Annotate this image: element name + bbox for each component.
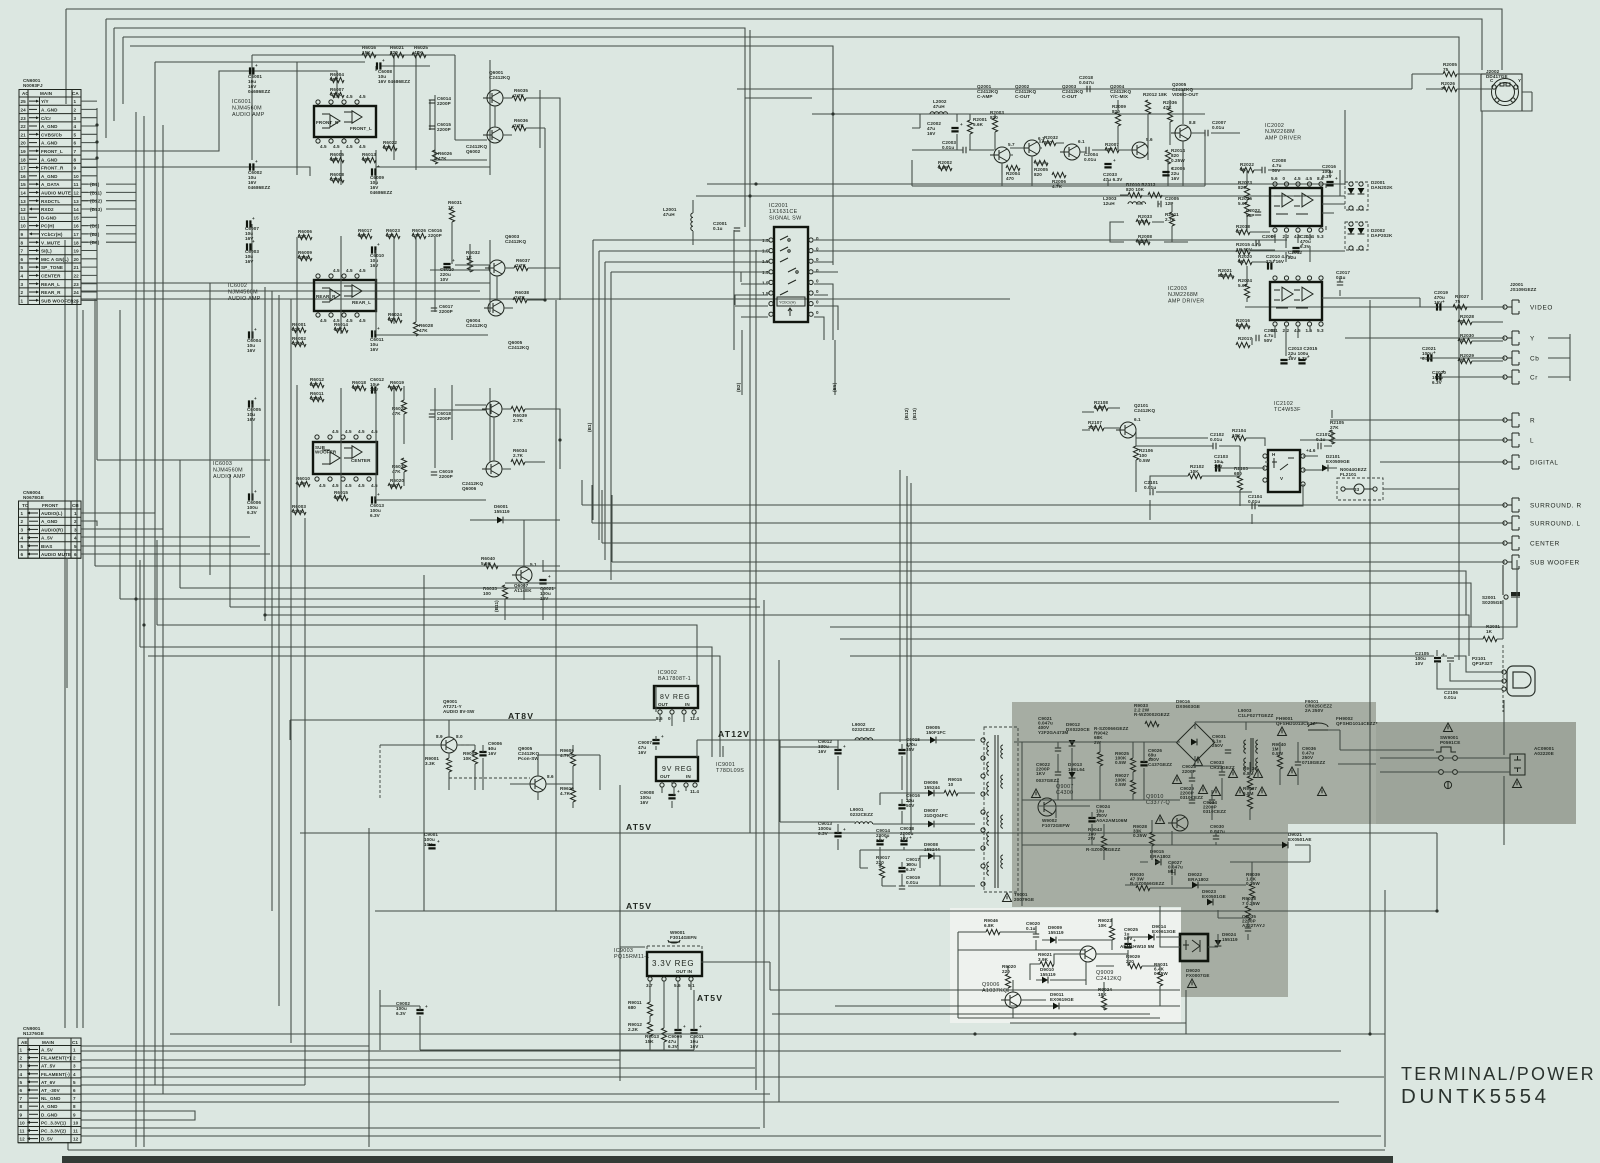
resistor R9011 [628,1000,653,1016]
svg-text:9: 9 [20,1112,23,1117]
svg-text:5: 5 [20,1080,23,1085]
capacitor C6004 [247,327,261,353]
svg-text:DUNTK5554: DUNTK5554 [1401,1085,1550,1108]
capacitor C2019 [1434,290,1448,311]
svg-text:MIC A GN(L): MIC A GN(L) [41,257,69,262]
resistor R6032 [466,250,480,272]
resistor R2023 [1238,180,1252,200]
svg-text:4.5: 4.5 [320,318,327,323]
svg-text:0: 0 [816,278,819,283]
wire output feeds [1245,307,1505,462]
resistor R6024 [388,312,402,323]
capacitor C9009 [668,1024,686,1049]
wire audio cross row [81,283,1010,460]
svg-text:9: 9 [21,232,24,237]
capacitor C2107 [1316,432,1330,449]
svg-text:7: 7 [21,249,24,254]
svg-text:+: + [488,746,491,751]
svg-text:+: + [254,489,257,494]
svg-text:AT_6V: AT_6V [41,1080,56,1085]
wire q6007 [460,520,543,620]
svg-text:Cr: Cr [1530,375,1538,382]
svg-text:SP_TONE: SP_TONE [41,265,63,270]
svg-text:OUT: OUT [658,702,668,707]
svg-text:3: 3 [20,1064,23,1069]
svg-text:3: 3 [73,1064,76,1069]
op-amp IC2102 [1263,401,1316,492]
resistor R6020 [388,478,404,489]
svg-text:4.5: 4.5 [358,483,365,488]
transistor Q2002 [1015,84,1045,156]
svg-text:YCbCr(H): YCbCr(H) [779,301,796,305]
svg-text:8.8: 8.8 [1189,120,1196,125]
capacitor C6001 [248,63,270,94]
connector DIGITAL output [1503,455,1559,469]
wire ic6003 links [252,385,560,512]
fuse F9001 [1305,699,1332,730]
svg-text:3: 3 [21,282,24,287]
wire top loop 1 [66,9,1502,70]
resistor R9015 [944,777,962,796]
resistor R6001 [292,322,306,333]
svg-text:20: 20 [74,257,80,262]
svg-text:25: 25 [74,298,80,303]
resistor R2008 [1136,234,1152,245]
wire mid horizontal bundle extra [95,299,820,615]
capacitor C6011 [370,326,384,352]
svg-text:1.5: 1.5 [762,280,769,285]
node B11 vertical [494,600,499,612]
inductor L9002 [852,722,875,740]
resistor R6003 [292,504,306,515]
resistor R9039 [1246,872,1260,898]
resistor R6040 [481,556,498,569]
svg-text:0: 0 [816,289,819,294]
resistor R2108 [1094,400,1108,411]
svg-text:1: 1 [74,99,77,104]
capacitor C9019 [899,875,921,889]
svg-text:C20180.047u: C20180.047u [1079,75,1094,85]
resistor R6005 [330,152,344,163]
capacitor C6005 [247,396,261,422]
resistor R2017 [1236,336,1252,348]
capacitor C2101 [1144,480,1158,495]
resistor R6018 [352,380,366,391]
svg-text:4.5: 4.5 [371,483,378,488]
capacitor C6021 [539,574,554,601]
resistor R9043 [1088,827,1107,850]
svg-text:3: 3 [74,527,77,532]
svg-text:+: + [437,839,440,844]
wire ic6002 links [252,128,560,344]
capacitor C6003 [245,239,259,264]
svg-text:4.5: 4.5 [345,483,352,488]
svg-text:C60152200P: C60152200P [437,122,451,132]
wire bottom border [68,1142,1385,1150]
capacitor C9020 [1026,921,1040,937]
capacitor C2021 [1422,346,1436,362]
svg-text:21: 21 [21,132,27,137]
svg-text:5: 5 [74,132,77,137]
svg-text:15: 15 [21,182,27,187]
svg-text:6: 6 [20,1088,23,1093]
capacitor C9034 [1203,800,1226,814]
svg-text:C60142200P: C60142200P [437,96,451,106]
resistor R6011 [310,391,324,402]
resistor R2005 [1034,160,1048,177]
svg-text:2: 2 [74,108,77,113]
connector CENTER output [1503,536,1560,550]
svg-text:YCbCr(H): YCbCr(H) [41,232,63,237]
transistor Q2004 [1110,84,1153,158]
svg-text:RXD2: RXD2 [41,207,54,212]
svg-text:+: + [1442,299,1445,304]
capacitor C2033 [1103,158,1123,182]
svg-text:4: 4 [74,124,77,129]
svg-text:4.5: 4.5 [332,483,339,488]
svg-text:CENTER: CENTER [41,274,61,279]
transistor Q6007 [512,562,537,593]
svg-text:+: + [1433,350,1436,355]
svg-text:+: + [254,396,257,401]
svg-text:14: 14 [74,207,80,212]
svg-text:0: 0 [816,257,819,262]
capacitor C2010 [1266,254,1291,270]
resistor R9013 [645,1028,667,1044]
resistor R2027 [1453,294,1469,310]
svg-text:+: + [1097,812,1100,817]
capacitor C2102 [1210,432,1224,449]
wire ic2001 pins [735,240,1345,340]
resistor R6013 [362,152,376,163]
svg-text:+: + [1273,258,1276,263]
svg-text:AE: AE [21,1040,28,1045]
capacitor C9022 [1036,762,1061,776]
resistor R6009 [298,250,312,261]
connector R output [1503,413,1535,427]
svg-text:+: + [907,862,910,867]
wire ic2001 left feeders [593,240,768,580]
resistor R2036 [1163,100,1177,122]
resistor R2029 [1458,353,1474,364]
resistor R6008 [330,172,344,183]
resistor R6023 [386,228,400,239]
svg-text:FRONT_R: FRONT_R [41,166,64,171]
svg-text:BIAS: BIAS [41,544,52,549]
svg-text:C90190.01u: C90190.01u [906,875,920,885]
svg-text:1.5: 1.5 [1306,328,1313,333]
transistor Q9010 [1146,794,1188,831]
capacitor C2006 [1162,166,1185,181]
resistor R2011 [1165,212,1179,226]
svg-text:SUB WOOFER: SUB WOOFER [1530,560,1580,567]
svg-text:4.5: 4.5 [333,94,340,99]
connector SURROUND. R output [1503,498,1582,512]
wire front-l feed [81,71,337,151]
transistor Q6001 [483,70,510,106]
capacitor C6018 [429,411,452,421]
resistor R2035 [1238,196,1252,216]
diode D9023 [1202,889,1226,905]
diode D9012 [1066,722,1090,746]
capacitor C9013 [818,821,846,836]
capacitor C2016 [1322,164,1338,185]
svg-text:10: 10 [74,174,80,179]
svg-text:18: 18 [21,157,27,162]
diode D9022 [1188,872,1209,888]
svg-text:FRONT_R: FRONT_R [316,120,339,125]
svg-text:(B2): (B2) [736,382,741,392]
switch SW9001 [1436,723,1460,789]
node B2 B5 labels [736,382,837,392]
svg-text:33: 33 [1354,487,1360,492]
op-amp IC6002 [228,268,376,323]
fuse W9001 [647,930,702,952]
svg-text:23: 23 [21,116,27,121]
capacitor C2012 [1288,250,1302,260]
resistor R6030 [392,458,407,474]
svg-text:CENTER: CENTER [351,458,371,463]
resistor R6015b [334,490,348,501]
svg-text:C21040.01u: C21040.01u [1248,494,1262,504]
capacitor C9011 [690,1024,704,1049]
svg-text:4.5: 4.5 [346,94,353,99]
svg-text:C/Cr: C/Cr [41,116,51,121]
wire white box mesh [958,918,1180,1018]
svg-text:+: + [885,835,888,840]
capacitor C9028 [1182,764,1196,781]
capacitor C6012 [370,377,384,394]
inductor L9001 [850,807,873,824]
wire signal rows mid [696,114,1345,196]
svg-text:8V REG: 8V REG [660,694,690,701]
svg-text:AT_5V: AT_5V [41,1064,56,1069]
svg-text:C60192200P: C60192200P [439,469,453,479]
capacitor C2104 [1248,494,1262,509]
svg-text:(B13): (B13) [912,408,917,420]
svg-text:C: C [1490,78,1494,83]
diode D9008 [924,842,940,859]
diode D6001 [470,504,560,523]
capacitor C2103 [1214,454,1228,472]
capacitor C9002 [396,1001,428,1016]
svg-text:AT5V: AT5V [626,901,652,911]
resistor R6014 [334,322,348,333]
wire power rails [290,720,1437,1006]
svg-text:+: + [1171,166,1174,171]
wire top loop 5 [130,46,833,230]
transistor Q2101 [1116,403,1155,438]
resistor R9012 [628,1022,653,1036]
svg-text:21: 21 [74,265,80,270]
capacitor C9035 [1242,914,1265,931]
inductor L2002 [930,99,948,114]
capacitor C2014 [1292,234,1314,251]
resistor R6028 [413,322,433,336]
resistor R6035 [512,88,528,101]
capacitor C2005 [1158,196,1179,207]
label AT8V [508,711,534,721]
transistor Q6004 [466,300,504,328]
svg-text:1: 1 [20,1048,23,1053]
transistor Q6002 [466,127,503,154]
svg-text:+: + [377,326,380,331]
connector SURROUND. L output [1503,516,1581,530]
svg-text:0: 0 [668,716,671,721]
svg-text:9: 9 [73,1112,76,1117]
resistor R6016 [362,45,376,58]
resistor R2024 [1238,278,1252,298]
wire long mid horizontals to outputs [582,480,1505,562]
wire mid bundle to power [140,470,911,833]
svg-text:0037GEZZ: 0037GEZZ [1036,778,1059,783]
svg-text:0: 0 [1283,176,1286,181]
resistor R2014 [1165,148,1185,164]
svg-text:6.1: 6.1 [1134,417,1141,422]
svg-text:PC_3.3V(2): PC_3.3V(2) [41,1129,66,1134]
connector P2101 [1472,656,1535,696]
wire q6001 links [376,98,560,300]
resistor R6010 [296,476,310,487]
resistor R6036 [512,118,528,131]
resistor R2009 [1112,104,1126,126]
svg-text:16: 16 [74,224,80,229]
resistor R2021 [1218,268,1234,279]
svg-text:A_GND: A_GND [41,1104,58,1109]
svg-text:FRONT: FRONT [42,503,58,508]
plug AC09001 [1510,746,1554,788]
resistor R9021 [1038,952,1054,967]
wire regulator links [290,686,920,808]
capacitor C2004 [1084,147,1098,162]
capacitor C9018 [900,826,914,844]
svg-text:A_DATA: A_DATA [41,182,60,187]
svg-text:10: 10 [20,1120,26,1125]
svg-text:C20070.01u: C20070.01u [1212,120,1226,130]
resistor R9040 [1272,742,1286,769]
svg-text:A_GND: A_GND [41,124,58,129]
capacitor C2003 [942,140,966,153]
svg-text:OUT IN: OUT IN [676,969,693,974]
svg-text:C21060.01u: C21060.01u [1444,690,1458,700]
svg-text:C20040.01u: C20040.01u [1084,152,1098,162]
diode D2002 [1345,222,1393,250]
inductor L2001 [663,200,693,245]
svg-text:AUDIO(L): AUDIO(L) [41,511,63,516]
resistor R2020 [1238,254,1252,265]
capacitor C9014 [876,828,890,844]
svg-text:18: 18 [74,240,80,245]
wire video chain row [737,89,1412,185]
svg-text:4: 4 [73,1072,76,1077]
wire cn9001 rows [81,1046,1384,1136]
capacitor C2017 [1336,270,1350,285]
wire p2101 area [505,560,1517,689]
svg-text:+: + [1133,938,1136,943]
resistor R9010 [560,786,576,802]
svg-text:FILAMENT(-): FILAMENT(-) [41,1072,70,1077]
connector L output [1503,433,1534,447]
svg-text:5.3: 5.3 [1317,328,1324,333]
svg-text:6.1: 6.1 [1078,139,1085,144]
svg-text:Y: Y [1530,336,1535,343]
svg-text:+: + [909,835,912,840]
svg-text:+: + [661,734,664,739]
resistor R2103 [1234,466,1248,490]
transistor Q9005 [518,746,554,792]
resistor R6029 [392,400,407,416]
svg-text:4.5: 4.5 [319,483,326,488]
svg-text:9: 9 [74,166,77,171]
resistor R6006 [298,229,312,240]
svg-text:SUB WOOFER: SUB WOOFER [41,298,74,303]
capacitor C9017 [898,857,920,872]
svg-text:1: 1 [73,1048,76,1053]
inductor L2003 [1103,196,1146,206]
svg-text:7: 7 [20,1096,23,1101]
svg-text:AT5V: AT5V [626,822,652,832]
svg-text:FRONT_L: FRONT_L [41,149,63,154]
svg-text:4.5: 4.5 [333,268,340,273]
resistor R2015 [1236,242,1261,255]
resistor R9037 [1243,786,1257,809]
svg-text:22: 22 [74,274,80,279]
svg-text:10: 10 [73,1120,79,1125]
svg-text:Q9007C4300: Q9007C4300 [1056,784,1074,796]
capacitor C6014 [429,96,452,106]
wire cn6004 rows [67,240,270,688]
regulator IC9001 9V [656,757,744,794]
capacitor C9024 [1088,804,1127,823]
capacitor C2105 [1415,651,1445,666]
switch S2001 [1482,565,1520,605]
svg-text:AUDIO(R): AUDIO(R) [41,527,63,532]
regulator IC9003 [614,948,702,988]
svg-text:17: 17 [21,166,27,171]
wire ic2002 links [1220,170,1420,356]
svg-text:2: 2 [73,1056,76,1061]
svg-text:3: 3 [21,527,24,532]
svg-text:2: 2 [21,519,24,524]
capacitor C9033 [1210,760,1235,775]
diode D9011 [1050,992,1074,1009]
transformer T9001 [981,727,1034,902]
svg-text:11: 11 [20,1129,25,1134]
svg-text:L: L [1530,438,1534,445]
svg-text:4.5: 4.5 [359,144,366,149]
resistor R2005 video [1443,62,1457,77]
op-amp IC6001 [232,94,376,149]
resistor R2018 [1236,224,1250,235]
svg-text:AEM1HW10 5M: AEM1HW10 5M [1120,944,1154,949]
power supply shaded region [1012,702,1576,997]
capacitor C9031 [1212,734,1231,753]
connector SUB WOOFER output [1503,555,1580,569]
svg-text:OUT: OUT [660,774,670,779]
svg-text:SI(L): SI(L) [41,249,52,254]
resistor R2106 [1133,446,1153,463]
svg-text:+: + [1113,158,1116,163]
capacitor C9026 [1140,748,1172,767]
svg-text:+: + [960,122,963,127]
node B12 B13 labels [587,408,917,432]
svg-text:13: 13 [21,199,27,204]
svg-text:1: 1 [74,511,77,516]
svg-text:PC_3.3V(1): PC_3.3V(1) [41,1120,66,1125]
resistor R9023 [1098,918,1115,940]
wire gray mesh [1014,700,1510,947]
svg-text:0: 0 [816,300,819,305]
